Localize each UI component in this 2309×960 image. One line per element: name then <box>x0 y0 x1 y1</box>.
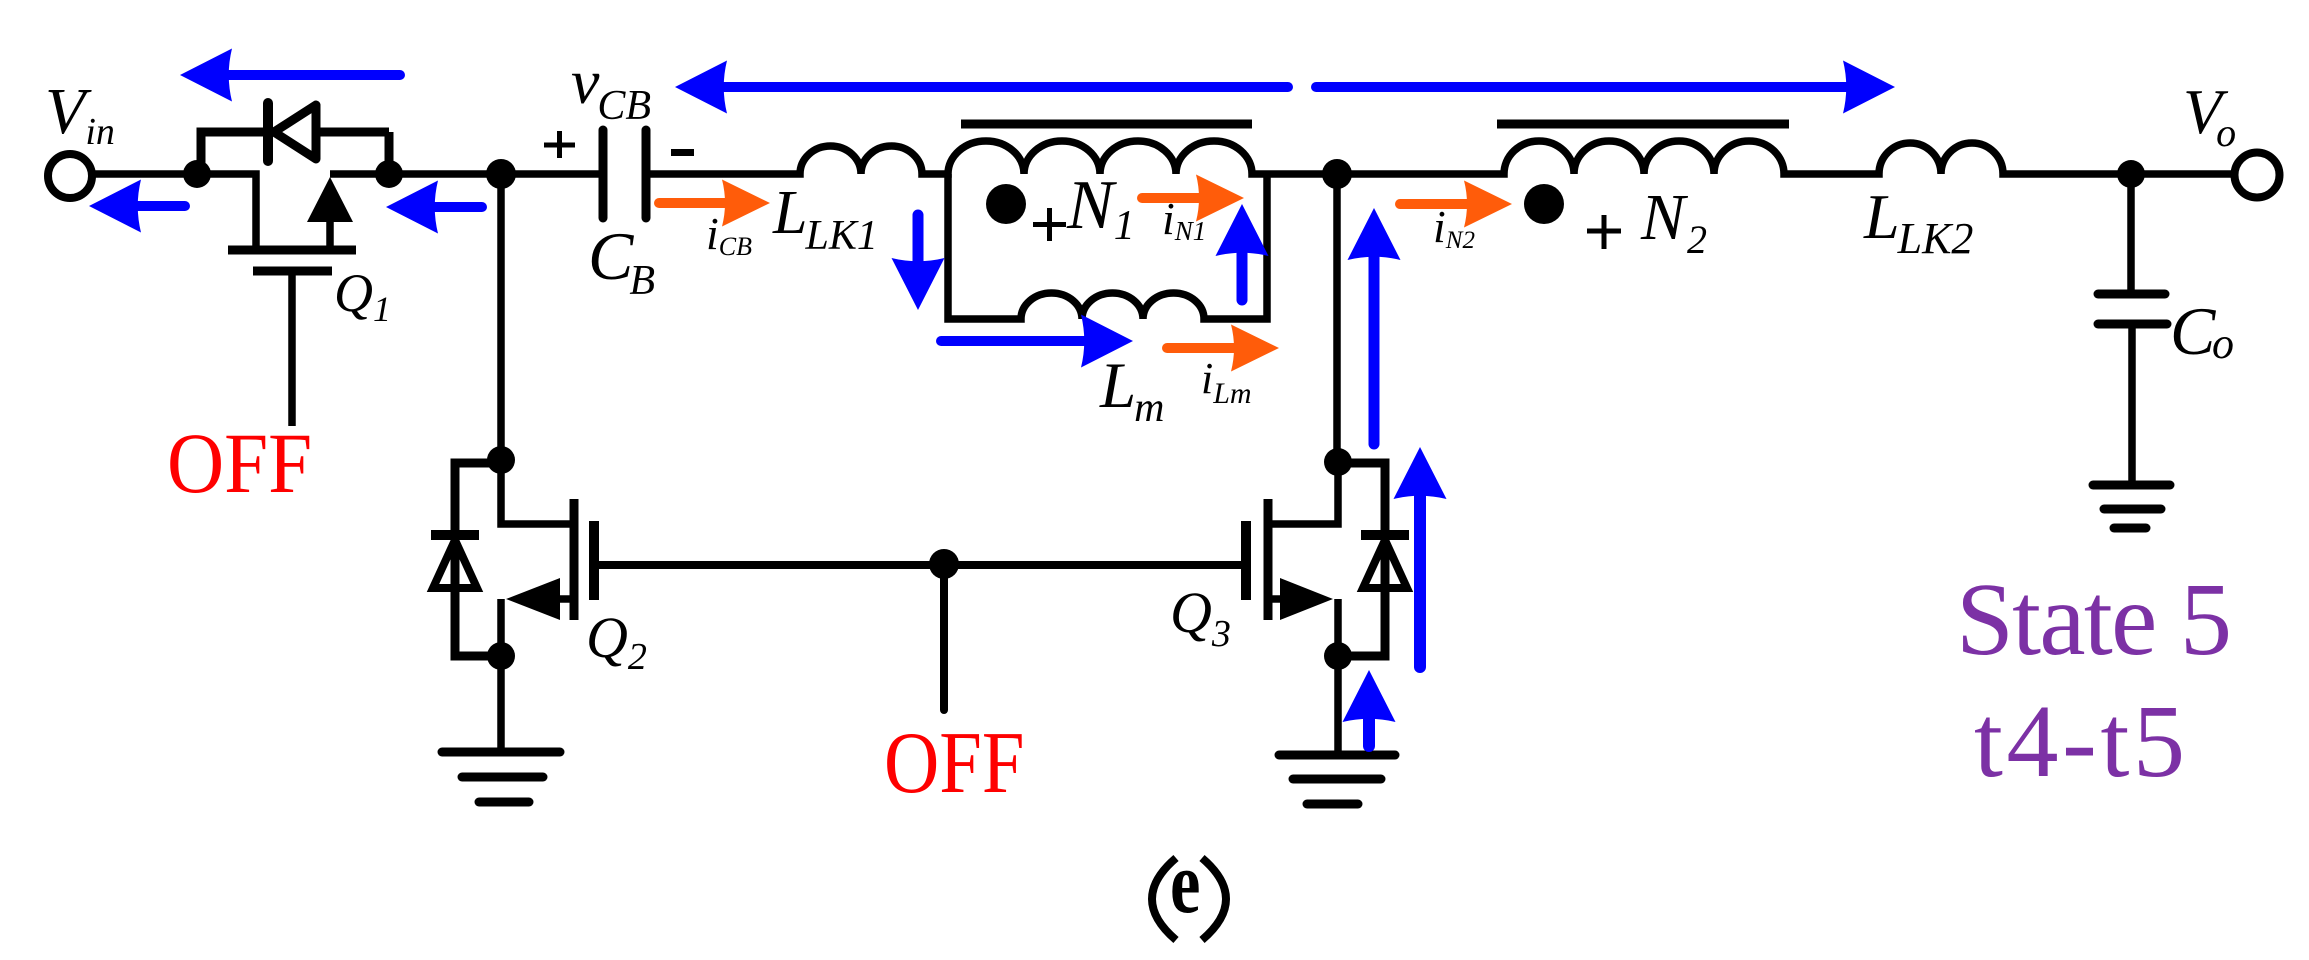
arrow blue long up (N2 branch) <box>1348 208 1401 444</box>
ground output <box>2093 485 2170 528</box>
capacitor CB <box>603 130 646 218</box>
arrow iN1 (orange) <box>1142 175 1244 222</box>
arrow blue right (Lm current) <box>941 315 1133 368</box>
wire gate bus Q2-Q3 <box>594 561 1246 569</box>
ground Q3 <box>1279 751 1395 760</box>
wire down to Q2 <box>497 174 505 460</box>
transformer core bars N2 <box>1497 120 1789 129</box>
transistor Q2 <box>431 446 594 802</box>
wire Lm loop <box>948 174 1267 319</box>
terminal Vo <box>2235 153 2280 198</box>
node CB junction <box>486 159 516 189</box>
arrow iN2 (orange) <box>1400 181 1512 228</box>
wire Q3 drain lead <box>1268 462 1338 524</box>
arrow blue up right of Q3 <box>1394 447 1447 667</box>
Q2 channel bar <box>570 499 579 620</box>
node Q3 source <box>1324 642 1352 670</box>
node mid junction <box>1322 159 1352 189</box>
wire Co to ground <box>2128 328 2136 481</box>
arrow blue long top-left segment <box>675 61 1288 114</box>
Q3 channel bar <box>1264 499 1273 620</box>
node Q2 source <box>487 642 515 670</box>
transistor Q3 <box>1246 448 1409 804</box>
node B (Q1 drain / CB node) <box>375 160 403 188</box>
label minus CB <box>671 149 694 156</box>
svg-text:o: o <box>2212 319 2234 368</box>
diode D1 body of Q1 <box>201 103 389 174</box>
diode D3 body of Q3 <box>1338 463 1385 656</box>
wire Q3 to ground <box>1334 656 1342 751</box>
node Q3 drain <box>1324 448 1352 476</box>
transformer core bars N1 <box>961 120 1252 129</box>
label plus CB <box>544 131 575 158</box>
svg-text:OFF: OFF <box>167 415 312 511</box>
arrow blue small right of Q1 <box>386 181 482 234</box>
arrow blue small above Q3 ground <box>1343 670 1396 746</box>
wire Q2 source lead <box>501 599 574 656</box>
svg-text:OFF: OFF <box>884 714 1024 811</box>
label plus N1 <box>1033 208 1066 241</box>
svg-text:C: C <box>2170 293 2216 369</box>
wire to Co <box>2127 174 2135 290</box>
wire down to Q3 <box>1333 174 1341 462</box>
wire gate stub down <box>940 565 948 710</box>
arrow blue up (N1 right) <box>1216 204 1269 300</box>
Q3 source arrow <box>1280 578 1333 620</box>
svg-text:e: e <box>1170 835 1200 932</box>
node dot polarity N1 <box>986 184 1026 224</box>
wire input bus left of Q1 <box>90 174 256 250</box>
label plus N2 <box>1587 215 1621 249</box>
Q3 gate bar <box>1241 521 1251 600</box>
label (e) <box>1152 835 1226 940</box>
diode D2 body of Q2 <box>455 463 501 656</box>
wire Q2 drain lead <box>501 460 574 524</box>
arrow blue small near Vin <box>89 180 185 233</box>
node gate junction <box>929 549 959 579</box>
arrow blue top-left (above Q1) <box>180 49 400 102</box>
node Q2 drain <box>487 446 515 474</box>
wire main bus right with inductors <box>650 141 2231 174</box>
node dot polarity N2 <box>1524 184 1564 224</box>
wire Q2 to ground <box>497 656 505 748</box>
transistor Q1 <box>228 177 356 426</box>
arrow iCB (orange) <box>659 180 770 227</box>
svg-text:t4-t5: t4-t5 <box>1974 684 2185 799</box>
Q2 gate bar <box>589 521 599 600</box>
ground Q2 <box>442 748 560 757</box>
Q2 source arrow <box>506 578 560 620</box>
terminal Vin <box>48 154 92 198</box>
arrow iLm (orange) <box>1167 325 1279 372</box>
wire Q3 source lead <box>1268 599 1338 656</box>
node Vo junction <box>2117 160 2145 188</box>
capacitor Co <box>2098 294 2167 324</box>
wire bus Q1 drain to CB <box>330 170 600 178</box>
arrow blue down (LLK1 branch) <box>892 215 945 310</box>
node A (Q1 source node) <box>183 160 211 188</box>
svg-text:State 5: State 5 <box>1956 562 2232 677</box>
arrow blue long top-right segment <box>1316 61 1895 114</box>
